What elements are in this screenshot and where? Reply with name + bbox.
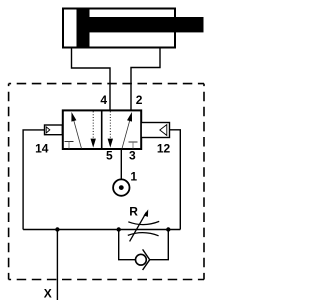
svg-text:1: 1: [130, 170, 137, 184]
svg-text:14: 14: [35, 141, 49, 155]
svg-text:R: R: [129, 205, 138, 219]
svg-text:X: X: [44, 287, 52, 301]
svg-text:3: 3: [129, 149, 136, 163]
svg-text:4: 4: [100, 93, 107, 107]
svg-text:5: 5: [106, 149, 113, 163]
svg-text:12: 12: [157, 141, 171, 155]
svg-text:2: 2: [136, 93, 143, 107]
